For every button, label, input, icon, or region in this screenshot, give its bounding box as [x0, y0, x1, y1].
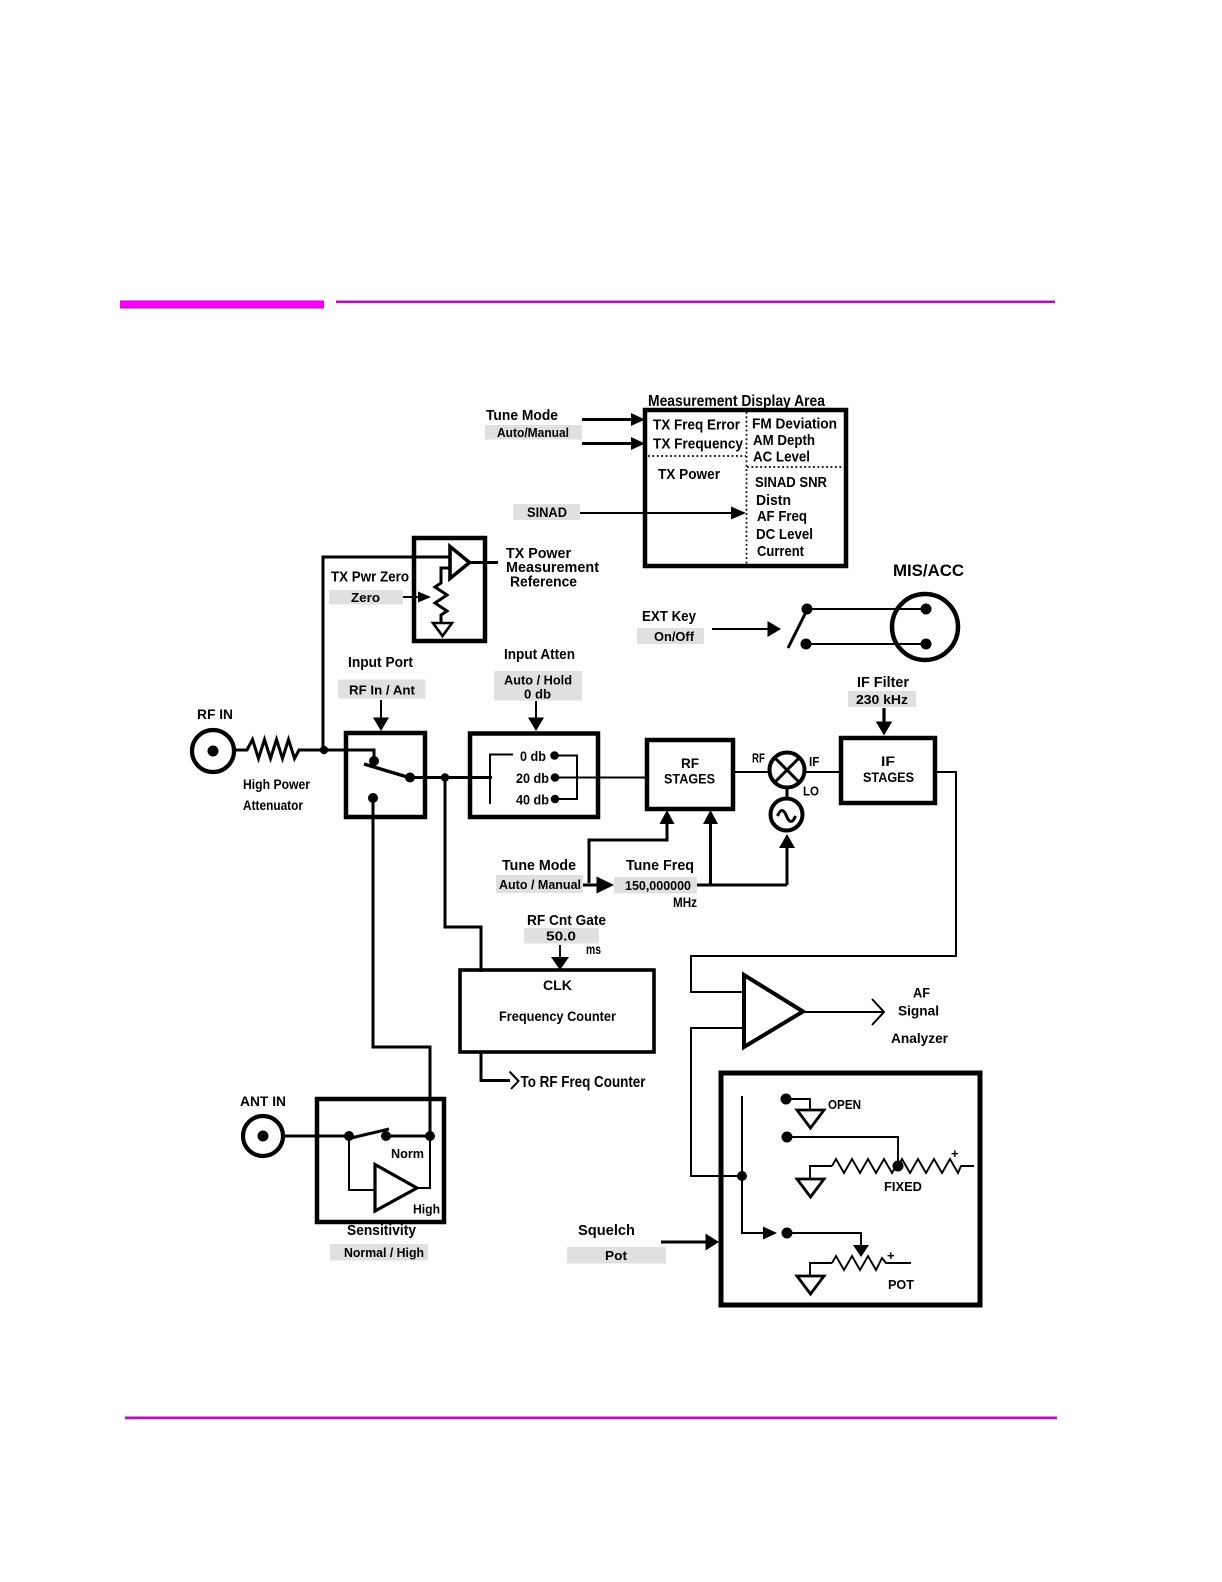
svg-text:RF: RF [752, 751, 765, 766]
svg-text:SINAD SNR: SINAD SNR [755, 474, 827, 491]
svg-text:STAGES: STAGES [863, 769, 914, 785]
resistor POT [810, 1263, 832, 1276]
softkey Zero [329, 590, 403, 605]
connector ANT IN [243, 1116, 283, 1156]
switch S3 sensitivity [344, 1131, 354, 1141]
svg-text:Frequency Counter: Frequency Counter [499, 1008, 616, 1024]
softkey Normal / High [330, 1244, 428, 1261]
squelch box [721, 1073, 980, 1305]
svg-text:Normal / High: Normal / High [344, 1245, 424, 1260]
wire squelch common [742, 1096, 764, 1233]
svg-text:150,000000: 150,000000 [625, 878, 691, 893]
switch S1 ext key [802, 604, 813, 615]
svg-text:RF Cnt Gate: RF Cnt Gate [527, 913, 606, 929]
svg-text:ANT IN: ANT IN [240, 1093, 286, 1109]
svg-text:RF In / Ant: RF In / Ant [349, 683, 416, 698]
wire open to ground [786, 1099, 810, 1110]
svg-text:+: + [951, 1146, 959, 1161]
softkey Auto / Manual [496, 875, 583, 893]
svg-text:On/Off: On/Off [654, 629, 695, 644]
svg-text:High: High [413, 1202, 440, 1217]
wire tune freq bus [697, 884, 787, 887]
svg-text:Signal: Signal [898, 1003, 939, 1019]
svg-text:AM Depth: AM Depth [753, 432, 815, 449]
svg-text:0 db: 0 db [524, 687, 551, 702]
dotted separator right column [747, 466, 844, 468]
wire arrow tune mode lower [582, 442, 632, 445]
svg-text:Tune Mode: Tune Mode [486, 408, 558, 424]
svg-text:FIXED: FIXED [884, 1180, 922, 1194]
ground fixed [797, 1179, 824, 1197]
softkey Auto / Hold 0 db [494, 671, 582, 702]
wire amp out to norm node [417, 1136, 430, 1188]
svg-text:TX Power: TX Power [658, 466, 720, 483]
oscillator LO [771, 799, 803, 831]
measurement display area box [645, 410, 846, 566]
svg-text:To RF Freq Counter: To RF Freq Counter [521, 1074, 646, 1091]
wire arrow tune mode upper [582, 418, 632, 421]
wire ANT IN to sensitivity [283, 1135, 349, 1138]
wire arrow 230kHz into IF stages [882, 708, 885, 723]
wire fixed branch [787, 1137, 898, 1166]
softkey 150,000000 [614, 877, 697, 894]
wire arrow squelch [661, 1241, 707, 1244]
wire arrow tune mode into RF stages [589, 823, 667, 883]
dotted column divider [746, 412, 748, 564]
svg-text:Input Atten: Input Atten [504, 647, 575, 663]
svg-text:230 kHz: 230 kHz [856, 692, 909, 707]
svg-text:EXT Key: EXT Key [642, 609, 696, 625]
node 0db [550, 751, 559, 760]
op-amp high sensitivity [375, 1165, 417, 1212]
svg-text:Tune Freq: Tune Freq [626, 858, 694, 874]
svg-text:TX Frequency: TX Frequency [653, 436, 744, 453]
svg-text:STAGES: STAGES [664, 771, 715, 787]
wire squelch input to AF amp [691, 1028, 744, 1176]
wire arrow zero [403, 596, 419, 598]
wire arrow tune freq into RF stages [709, 823, 712, 885]
svg-text:SINAD: SINAD [527, 504, 567, 520]
sensitivity box [317, 1099, 444, 1222]
wire RF stages to mixer [733, 771, 771, 773]
svg-text:IF: IF [809, 754, 820, 769]
svg-text:OPEN: OPEN [828, 1098, 861, 1112]
IF stages box [841, 738, 935, 803]
wire to MIS/ACC lower [806, 643, 926, 645]
svg-text:LO: LO [803, 784, 819, 799]
svg-text:Auto / Manual: Auto / Manual [499, 877, 581, 892]
svg-text:Auto/Manual: Auto/Manual [497, 425, 569, 440]
softkey On/Off [637, 628, 704, 644]
svg-text:40 db: 40 db [516, 793, 549, 808]
wire 20db out to RF stages [555, 777, 649, 779]
svg-text:RF: RF [681, 755, 699, 771]
wire junction to freq counter [445, 778, 481, 973]
wire mixer to LO [786, 787, 789, 800]
svg-text:Tune Mode: Tune Mode [502, 858, 576, 874]
connector MIS/ACC [892, 594, 958, 660]
header thick magenta bar [120, 301, 324, 309]
wire switch out to input atten [410, 776, 492, 779]
node junction below input atten [441, 773, 449, 781]
node 20db [551, 773, 560, 782]
wire mixer to IF stages [803, 771, 843, 773]
op-amp AF [744, 975, 803, 1047]
svg-text:TX Freq Error: TX Freq Error [653, 417, 740, 434]
svg-text:50.0: 50.0 [546, 929, 576, 944]
resistor fixed left [810, 1166, 832, 1179]
svg-text:Analyzer: Analyzer [891, 1030, 949, 1046]
wire arrow tune freq to LO [786, 848, 789, 885]
svg-text:Squelch: Squelch [578, 1223, 635, 1239]
wire input port to ant switch [373, 798, 430, 1136]
svg-text:Zero: Zero [351, 590, 380, 605]
wire to MIS/ACC upper [807, 608, 926, 610]
softkey 50.0 [524, 928, 599, 944]
svg-text:MHz: MHz [673, 895, 697, 910]
svg-text:Distn: Distn [756, 492, 791, 509]
switch S2 input port [369, 756, 379, 766]
resistor high power attenuator [235, 740, 326, 759]
svg-text:Reference: Reference [510, 575, 577, 591]
header thin magenta rule [336, 301, 1055, 304]
svg-text:MIS/ACC: MIS/ACC [893, 562, 964, 580]
connector RF IN [192, 730, 234, 772]
resistor fixed right [898, 1159, 974, 1173]
svg-text:TX Pwr Zero: TX Pwr Zero [331, 570, 409, 586]
node fixed junction [893, 1161, 904, 1172]
svg-text:Auto / Hold: Auto / Hold [504, 673, 572, 688]
node 40db [551, 795, 560, 804]
svg-text:IF: IF [881, 753, 895, 769]
attenuator selector bracket left [490, 755, 513, 805]
svg-text:POT: POT [888, 1278, 914, 1292]
svg-text:Pot: Pot [605, 1248, 628, 1263]
dotted separator left column [648, 455, 746, 457]
svg-text:Attenuator: Attenuator [243, 798, 304, 813]
wire arrow 50.0 into counter [559, 945, 561, 959]
wire RF IN to input port [326, 750, 374, 761]
wire input to op-amp [323, 557, 450, 749]
resistor R1 trimmer [435, 568, 449, 622]
attenuator selector bracket right [555, 756, 578, 800]
svg-text:ms: ms [586, 942, 601, 957]
svg-text:CLK: CLK [543, 977, 572, 993]
node junction to TX power ref [320, 746, 328, 754]
TX power measurement reference box [414, 538, 485, 641]
input port switch box [346, 733, 425, 817]
softkey Auto/Manual (top) [485, 425, 582, 440]
wire to high amp [349, 1136, 375, 1190]
ground [433, 623, 452, 636]
svg-text:0 db: 0 db [520, 749, 546, 764]
wire arrow SINAD [580, 512, 732, 514]
svg-text:High Power: High Power [243, 777, 311, 792]
svg-text:+: + [887, 1248, 895, 1263]
svg-text:IF Filter: IF Filter [857, 675, 909, 691]
wire arrow input atten [535, 701, 537, 719]
ground open [797, 1110, 824, 1128]
svg-text:DC Level: DC Level [756, 526, 813, 543]
svg-text:Current: Current [757, 543, 804, 560]
svg-text:Input Port: Input Port [348, 655, 413, 671]
svg-text:Measurement Display Area: Measurement Display Area [648, 393, 825, 410]
wire arrow tune mode to tune freq [583, 884, 598, 887]
softkey RF In / Ant [338, 680, 426, 699]
RF stages box [647, 740, 733, 809]
wire pot wiper [787, 1233, 861, 1246]
wire to RF freq counter [481, 1053, 510, 1081]
footer magenta rule [125, 1417, 1057, 1420]
node open [781, 1094, 792, 1105]
op-amp U1 [450, 547, 470, 579]
softkey SINAD [513, 504, 580, 520]
node fixed [782, 1132, 793, 1143]
node pot select [782, 1228, 793, 1239]
wire IF stages to AF path [691, 772, 956, 992]
wire op-amp output [469, 561, 498, 564]
svg-text:20 db: 20 db [516, 771, 549, 786]
softkey 230 kHz [848, 691, 916, 707]
svg-text:Norm: Norm [391, 1146, 424, 1161]
wire arrow rf in/ant [380, 700, 382, 719]
mixer [770, 753, 805, 788]
svg-text:AF: AF [913, 985, 930, 1001]
svg-text:RF IN: RF IN [197, 706, 233, 722]
ground pot [797, 1276, 824, 1294]
input atten box [470, 734, 598, 818]
wire arrow AF output [803, 1011, 883, 1013]
node squelch input [737, 1171, 747, 1181]
svg-text:Sensitivity: Sensitivity [347, 1223, 416, 1239]
svg-text:AF Freq: AF Freq [757, 508, 807, 525]
softkey Pot [567, 1247, 666, 1264]
wire arrow ext key [712, 628, 768, 630]
frequency counter box [460, 970, 654, 1052]
svg-text:FM Deviation: FM Deviation [752, 416, 837, 433]
svg-text:AC Level: AC Level [753, 449, 810, 466]
